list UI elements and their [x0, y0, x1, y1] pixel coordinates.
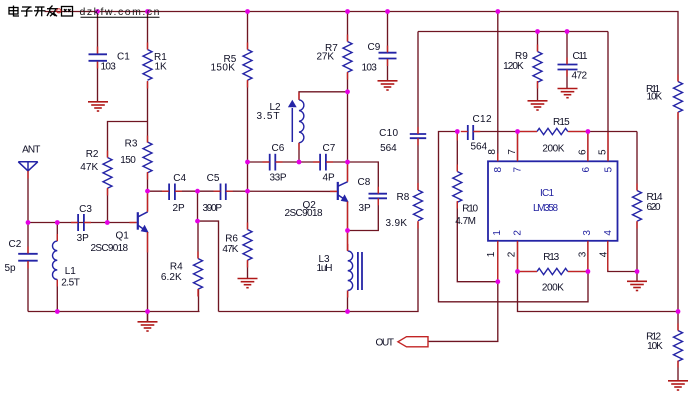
- capacitor C11 plates: [558, 65, 578, 70]
- watermark chinese glyph wang: [62, 7, 73, 17]
- wire R13 right: [568, 271, 588, 273]
- svg-text:103: 103: [362, 63, 378, 74]
- wire C8 top branch: [348, 162, 379, 194]
- svg-text:3: 3: [582, 230, 593, 236]
- svg-text:120K: 120K: [503, 61, 524, 72]
- wire pin8 riser to VCC: [497, 12, 499, 162]
- svg-text:4.7M: 4.7M: [455, 216, 476, 227]
- wire R11 bottom long: [677, 113, 679, 312]
- wire L1 bottom: [56, 280, 58, 312]
- wire VCC top rail: [45, 12, 679, 82]
- svg-text:5: 5: [603, 166, 614, 172]
- wire C1 top: [97, 12, 99, 55]
- svg-text:2.5T: 2.5T: [61, 278, 80, 289]
- junction dots on C6-C7 net: [245, 160, 350, 165]
- capacitor C10 plates: [410, 134, 426, 138]
- wire R5 top: [247, 12, 249, 50]
- wire node B to R2: [108, 122, 148, 158]
- capacitor C1 plates: [89, 54, 108, 61]
- wire C9 bottom to ground: [387, 59, 389, 81]
- wire C10 top branch: [417, 32, 419, 135]
- svg-text:6: 6: [581, 166, 592, 172]
- ground below R12: [668, 381, 688, 390]
- wire C1 bottom to ground: [97, 62, 99, 102]
- svg-text:33P: 33P: [270, 172, 287, 183]
- wire Q1 emitter fall: [147, 232, 149, 312]
- wire pin4 ground node to ground: [636, 272, 638, 282]
- wire R4 bottom: [198, 290, 200, 312]
- resistor R7 zigzag: [343, 42, 352, 73]
- wire R8 top: [417, 138, 419, 190]
- ground below C9: [378, 81, 398, 90]
- svg-text:103: 103: [101, 61, 117, 72]
- capacitor C12 plates: [468, 125, 473, 140]
- wire pin7 stub: [517, 132, 519, 162]
- svg-text:R10: R10: [462, 204, 478, 215]
- svg-text:6.2K: 6.2K: [161, 272, 182, 283]
- svg-text:47K: 47K: [222, 244, 238, 255]
- transistor Q2: [338, 182, 349, 203]
- wire ANT lead: [27, 171, 29, 254]
- svg-text:ANT: ANT: [22, 144, 40, 155]
- wire pin5 branch: [607, 32, 609, 162]
- svg-text:472: 472: [572, 70, 588, 81]
- svg-text:1: 1: [486, 251, 497, 257]
- svg-text:C6: C6: [272, 143, 285, 154]
- svg-text:10K: 10K: [647, 341, 663, 352]
- svg-text:5: 5: [597, 149, 608, 155]
- svg-text:C1: C1: [117, 51, 130, 62]
- wire C5 to Q2 base: [226, 190, 337, 192]
- watermark chinese glyph fa: [47, 6, 58, 17]
- svg-text:27K: 27K: [317, 51, 335, 62]
- svg-text:R15: R15: [553, 117, 570, 128]
- wire R6 bottom to ground: [247, 261, 249, 279]
- svg-text:3P: 3P: [359, 203, 372, 214]
- svg-text:C11: C11: [573, 51, 588, 62]
- capacitor C3 plates: [78, 214, 84, 231]
- junction dots on C12 net: [455, 129, 590, 134]
- svg-text:2SC9018: 2SC9018: [91, 243, 129, 254]
- svg-text:OUT: OUT: [376, 338, 395, 349]
- wire ground rail left: [28, 311, 200, 313]
- svg-text:10K: 10K: [647, 92, 663, 103]
- svg-text:3: 3: [577, 251, 588, 257]
- wire C9 top: [387, 12, 389, 53]
- wire base node A: [28, 222, 137, 224]
- svg-text:6: 6: [577, 149, 588, 155]
- wire R14 bottom: [636, 222, 638, 272]
- junction dots on node C net: [145, 189, 250, 194]
- svg-text:IC1: IC1: [540, 188, 554, 199]
- wire pin2 to R12 node: [518, 241, 679, 312]
- svg-text:dzkfw.com.cn: dzkfw.com.cn: [80, 6, 160, 18]
- resistor R1 zigzag: [143, 50, 152, 81]
- wire R5 bottom long: [247, 81, 249, 192]
- junction dots on ground rails: [55, 309, 680, 314]
- wire R2 bottom: [107, 189, 109, 223]
- junction dots on VCC rail: [95, 9, 500, 14]
- svg-text:R3: R3: [125, 138, 138, 149]
- capacitor C9 plates: [379, 53, 397, 59]
- resistor R15 zigzag: [537, 128, 568, 134]
- junction dot C8 bottom: [345, 228, 350, 233]
- capacitor C4 plates: [169, 184, 175, 201]
- wire R4 top: [197, 221, 199, 258]
- wire Q2 collector riser: [347, 92, 349, 182]
- wire R9 top: [537, 32, 539, 52]
- svg-text:150: 150: [120, 155, 136, 166]
- wire C12 left link: [439, 132, 589, 302]
- wire L3 bottom: [347, 291, 349, 312]
- inductor L3 coil with core: [348, 251, 362, 291]
- ground below left rail: [138, 312, 158, 332]
- resistor R8 zigzag: [414, 190, 423, 221]
- svg-text:8: 8: [493, 166, 504, 172]
- wire node C to C4: [148, 190, 170, 192]
- svg-text:1: 1: [492, 230, 503, 236]
- resistor R13 zigzag: [537, 268, 568, 274]
- svg-text:200K: 200K: [542, 144, 564, 155]
- junction dots on R13 net: [515, 269, 639, 274]
- wire R10 bottom to pin1: [457, 202, 498, 282]
- antenna ANT: [18, 162, 38, 171]
- wire Q1 collector riser: [147, 191, 149, 212]
- wire R13 left: [518, 271, 538, 273]
- svg-text:4P: 4P: [323, 172, 336, 183]
- junction dot R10 to pin1: [495, 279, 500, 284]
- svg-text:200K: 200K: [542, 283, 564, 294]
- ground below C1: [88, 102, 108, 111]
- wire R7 bottom: [347, 73, 349, 92]
- ground below R9: [528, 101, 548, 110]
- wire Q2 emitter fall: [347, 202, 349, 251]
- wire C11 bottom to ground: [566, 70, 568, 89]
- component red pin leads: [28, 35, 678, 368]
- wire C6-C7 link: [276, 161, 321, 163]
- junction dot node L2 top: [345, 89, 350, 94]
- wire R14 top branch: [636, 132, 638, 191]
- resistor R11 zigzag: [674, 82, 683, 113]
- wire L2 top link: [299, 92, 348, 100]
- wire R12 top node: [677, 312, 679, 331]
- junction dot node D: [195, 219, 200, 224]
- wire R15 right: [569, 131, 638, 133]
- svg-text:2P: 2P: [173, 203, 186, 214]
- wire R1 top: [147, 12, 149, 50]
- svg-text:8: 8: [487, 149, 498, 155]
- resistor R9 zigzag: [533, 52, 542, 83]
- svg-text:C2: C2: [9, 239, 22, 250]
- svg-text:R2: R2: [86, 149, 99, 160]
- wire pin3 stub: [587, 241, 589, 272]
- svg-text:390P: 390P: [203, 203, 223, 214]
- wire C11 top: [566, 32, 568, 65]
- resistor R3 zigzag: [143, 142, 152, 173]
- inductor L2 coil with arrow: [288, 100, 304, 143]
- inductor L1 coil: [52, 241, 57, 279]
- svg-text:LM358: LM358: [533, 203, 558, 214]
- resistor R6 zigzag: [243, 230, 252, 261]
- capacitor C6 plates: [270, 154, 276, 171]
- svg-text:C8: C8: [358, 177, 371, 188]
- ground below R6: [238, 279, 258, 288]
- svg-text:2SC9018: 2SC9018: [285, 208, 323, 219]
- svg-text:C9: C9: [368, 42, 381, 53]
- wire node C6 left: [248, 161, 270, 163]
- junction dots on V2 rail: [535, 29, 569, 34]
- svg-text:C5: C5: [207, 173, 220, 184]
- svg-text:3.5T: 3.5T: [257, 111, 280, 122]
- wire R6 top: [247, 191, 249, 230]
- svg-text:Q1: Q1: [116, 230, 130, 241]
- wire C12 right to R15: [474, 131, 538, 133]
- ground below C11: [558, 89, 578, 98]
- watermark red circle mark: [57, 9, 61, 13]
- svg-text:R8: R8: [397, 192, 410, 203]
- resistor R10 zigzag: [453, 172, 462, 203]
- op-amp U1 IC1 LM358 box: [488, 161, 618, 241]
- wire V2 rail: [418, 31, 608, 33]
- wire pin6 stub: [587, 132, 589, 162]
- capacitor C2 plates: [18, 254, 38, 261]
- port OUT symbol: [398, 337, 428, 347]
- wire pin1 to OUT: [429, 241, 498, 342]
- watermark chinese glyph kai: [34, 7, 46, 16]
- wire R1 bottom to node B: [147, 82, 149, 122]
- svg-text:L1: L1: [65, 266, 77, 277]
- resistor R12 zigzag: [674, 331, 683, 362]
- svg-text:564: 564: [471, 141, 488, 152]
- watermark underline: [81, 16, 160, 18]
- svg-text:C3: C3: [79, 204, 92, 215]
- svg-text:1K: 1K: [155, 61, 168, 72]
- resistor R14 zigzag: [633, 191, 642, 222]
- wire R12 bottom to ground: [677, 361, 679, 381]
- wire R3 top: [147, 122, 149, 143]
- wire R9 bottom to ground: [537, 82, 539, 101]
- wire node D drop: [197, 191, 199, 221]
- svg-text:47K: 47K: [80, 162, 98, 173]
- wire C2 bottom: [27, 261, 29, 312]
- svg-text:3P: 3P: [77, 233, 90, 244]
- svg-text:R6: R6: [225, 234, 238, 245]
- transistor Q1: [138, 212, 149, 233]
- capacitor C5 plates: [221, 184, 226, 201]
- svg-text:C10: C10: [379, 128, 398, 139]
- wire R10 top: [456, 132, 458, 172]
- wire R3 bottom to node C: [147, 173, 149, 192]
- svg-text:5p: 5p: [5, 263, 17, 274]
- wire C7 right: [326, 161, 348, 163]
- svg-text:C7: C7: [323, 143, 336, 154]
- resistor R5 zigzag: [243, 50, 252, 81]
- svg-text:2: 2: [512, 230, 523, 236]
- svg-text:3.9K: 3.9K: [386, 218, 408, 229]
- svg-text:150K: 150K: [211, 63, 236, 74]
- wire R7 top: [347, 12, 349, 42]
- svg-text:C12: C12: [473, 114, 492, 125]
- svg-text:7: 7: [512, 166, 523, 172]
- capacitor C7 plates: [320, 154, 326, 171]
- svg-text:C4: C4: [173, 173, 186, 184]
- svg-text:4: 4: [603, 230, 614, 236]
- wire ground rail right: [219, 222, 419, 312]
- svg-text:1uH: 1uH: [317, 263, 333, 274]
- resistor R4 zigzag: [194, 259, 203, 290]
- ground below pin4 and R14: [627, 281, 647, 290]
- watermark chinese glyph zi: [21, 7, 33, 16]
- wire L2 bottom: [298, 143, 300, 162]
- resistor R2 zigzag: [103, 158, 112, 189]
- wire C4-C5 link: [175, 190, 221, 192]
- svg-text:7: 7: [507, 149, 518, 155]
- wire node D to ground rail right: [198, 221, 219, 311]
- svg-text:R4: R4: [170, 261, 183, 272]
- svg-text:R13: R13: [543, 252, 559, 263]
- watermark chinese glyph dian: [9, 6, 19, 17]
- capacitor C8 plates: [369, 194, 388, 199]
- svg-text:620: 620: [647, 202, 661, 213]
- svg-text:2: 2: [506, 251, 517, 257]
- svg-text:564: 564: [380, 143, 397, 154]
- wire pin4 stub: [608, 241, 637, 272]
- wire L1 top: [56, 223, 58, 242]
- junction dots on node A net: [26, 220, 110, 225]
- wire C8 bottom branch: [348, 198, 379, 230]
